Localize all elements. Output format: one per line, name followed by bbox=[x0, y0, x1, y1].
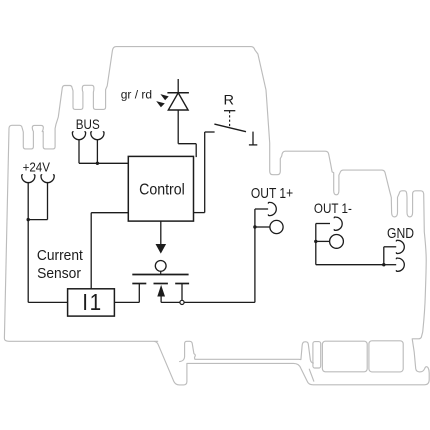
svg-text:gr / rd: gr / rd bbox=[121, 88, 152, 102]
svg-text:Control: Control bbox=[139, 181, 185, 199]
svg-text:+24V: +24V bbox=[23, 160, 51, 175]
svg-text:Current: Current bbox=[37, 247, 83, 264]
svg-text:OUT 1-: OUT 1- bbox=[314, 200, 352, 216]
svg-text:OUT 1+: OUT 1+ bbox=[251, 185, 293, 201]
svg-text:BUS: BUS bbox=[76, 116, 100, 132]
svg-text:Sensor: Sensor bbox=[37, 266, 81, 283]
svg-text:R: R bbox=[223, 93, 234, 109]
svg-text:I: I bbox=[82, 289, 88, 315]
svg-text:1: 1 bbox=[90, 289, 102, 315]
svg-text:GND: GND bbox=[387, 225, 414, 241]
